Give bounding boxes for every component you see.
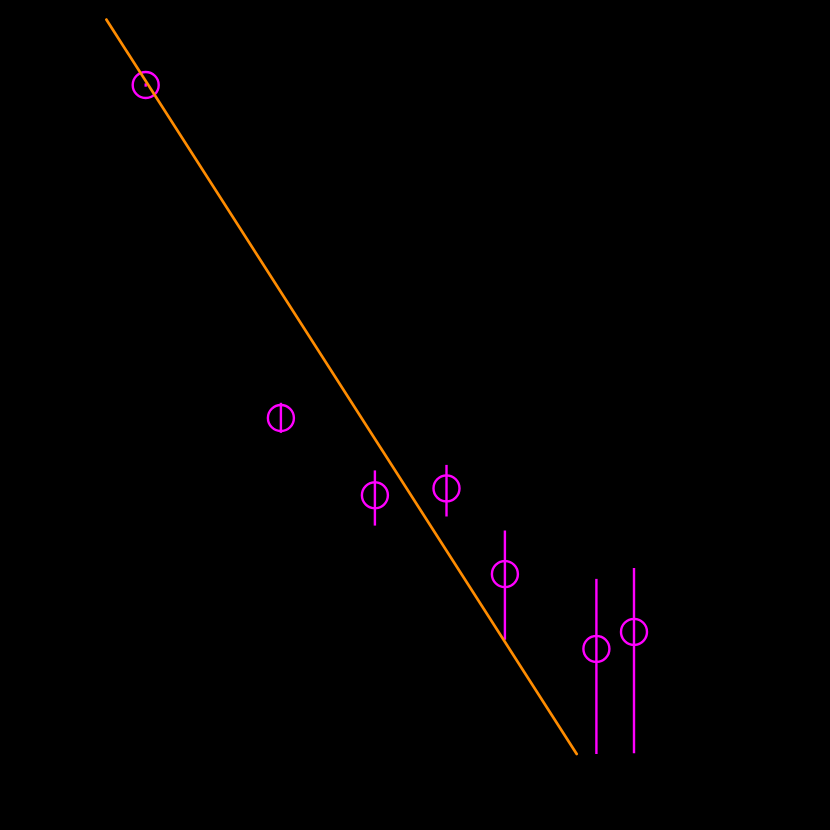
data point 6 (circle) — [583, 636, 609, 662]
regression fit line — [106, 20, 576, 754]
data point 2 (circle) — [268, 405, 294, 431]
error bar 2 — [280, 403, 282, 433]
error bar 4 — [445, 465, 447, 517]
data point 3 (circle) — [362, 482, 388, 508]
error bar 1 — [144, 83, 146, 86]
error bar 7 — [633, 568, 635, 753]
data point 4 (circle) — [434, 475, 460, 501]
error bar 3 — [374, 470, 376, 525]
data point 7 (circle) — [621, 619, 647, 645]
data point 5 (circle) — [492, 561, 518, 587]
data point 1 (circle) — [133, 72, 159, 98]
error bar 6 — [595, 579, 597, 754]
error bar 5 — [504, 531, 506, 640]
